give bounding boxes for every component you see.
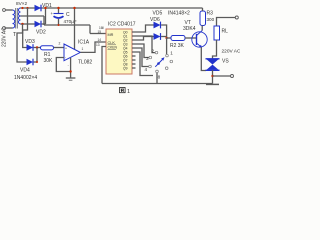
capacitor C stub bottom <box>58 19 60 25</box>
wire: emitter down to triac gate <box>201 47 206 70</box>
op-amp IC1A triangle <box>64 44 80 61</box>
transformer T secondary winding <box>19 8 21 24</box>
wire: ground rail to IC2 MR <box>44 24 90 26</box>
ground bus bottom <box>102 83 213 85</box>
svg-text:CKEN: CKEN <box>108 46 118 50</box>
ground bar under triac <box>206 83 219 85</box>
wire: op-amp output to CLK <box>80 42 106 52</box>
svg-text:4: 4 <box>145 67 148 72</box>
svg-text:VD3: VD3 <box>25 39 35 45</box>
svg-text:1N4002×4: 1N4002×4 <box>14 75 37 81</box>
wire: triac MT1 down <box>212 70 214 83</box>
svg-text:300: 300 <box>207 17 215 22</box>
diode VD3 <box>27 44 34 51</box>
wire: junction down to VD4 cathode <box>36 48 38 63</box>
transformer T core <box>15 8 17 29</box>
svg-text:1: 1 <box>170 50 173 55</box>
svg-text:15: 15 <box>98 30 102 34</box>
resistor R3 <box>200 11 206 26</box>
svg-text:220V AC: 220V AC <box>222 49 241 55</box>
svg-text:MR: MR <box>108 33 114 37</box>
svg-text:VD2: VD2 <box>36 30 46 36</box>
transistor collector <box>197 31 203 36</box>
wire: VD5 cathode to node <box>161 25 167 38</box>
wire: VD2 cathode up to rail <box>42 23 46 25</box>
svg-text:IC1A: IC1A <box>78 40 90 46</box>
resistor R1 <box>41 46 54 50</box>
terminal: primary top <box>3 9 6 12</box>
wire: RL top to terminal <box>217 18 236 27</box>
svg-text:IC2 CD4017: IC2 CD4017 <box>108 22 136 28</box>
wire: Q pin y36 to contact 2 <box>132 36 155 53</box>
wire: Q pin y32 to VD5 anode <box>132 25 154 32</box>
ground symbol <box>66 77 76 79</box>
IC2 output pin labels Q <box>123 31 128 71</box>
capacitor C plates <box>54 13 64 15</box>
wire: VD3 cathode to R1 <box>34 47 41 49</box>
svg-text:2: 2 <box>59 42 61 46</box>
relay RL body <box>214 26 220 40</box>
junction: VD2 cathode at rail <box>44 7 46 9</box>
svg-text:30K: 30K <box>44 58 54 64</box>
svg-text:VD1: VD1 <box>42 3 52 9</box>
junction: V- and input ground <box>69 70 71 72</box>
svg-text:3: 3 <box>146 56 149 61</box>
wire: op-amp V- down <box>70 58 72 78</box>
capacitor C stub top <box>58 8 60 13</box>
svg-text:14: 14 <box>98 38 102 42</box>
svg-text:R3: R3 <box>207 11 214 17</box>
wire: contact 1 to R2 node <box>166 38 168 54</box>
wire: Q pin y48 to contact 4 <box>132 48 148 67</box>
caption figure 1 <box>120 88 126 93</box>
triac VS <box>206 58 220 60</box>
svg-text:2: 2 <box>152 49 155 54</box>
diode VD1 <box>35 5 42 12</box>
svg-text:VS: VS <box>222 59 229 65</box>
terminal: output top <box>235 16 238 19</box>
svg-text:VD5: VD5 <box>153 10 163 16</box>
svg-text:1: 1 <box>82 47 84 51</box>
wire: VD4 cathode <box>34 61 37 63</box>
junction: rail tap A <box>21 7 23 9</box>
wire: rail corner into R3 <box>202 8 204 11</box>
svg-text:+: + <box>51 11 54 16</box>
switch wiper arrow <box>157 62 160 65</box>
wire: secondary center tap <box>21 15 45 17</box>
wire: VD6 cathode <box>161 36 167 38</box>
junction: rail tap to VD3 <box>26 7 28 9</box>
wire: RL bottom to triac <box>213 40 217 60</box>
wire: primary top lead <box>6 9 13 11</box>
svg-text:Q9: Q9 <box>123 67 128 71</box>
wire: bottom end down to VD4 anode <box>17 24 27 62</box>
svg-text:C: C <box>66 12 70 18</box>
terminal: primary bottom <box>3 27 6 30</box>
svg-text:220V AC: 220V AC <box>2 27 8 47</box>
wire: Q pin y52 down <box>132 52 153 76</box>
svg-text:13: 13 <box>96 43 100 47</box>
transformer T primary winding <box>13 10 15 28</box>
svg-text:3DK4: 3DK4 <box>183 26 196 32</box>
svg-text:+: + <box>65 46 67 50</box>
diode VD4 <box>27 59 34 66</box>
wire: CKEN to ground bus <box>102 47 106 84</box>
wire: top end down to VD3 anode <box>23 8 28 48</box>
svg-text:TL082: TL082 <box>78 60 92 66</box>
wire: primary bottom lead <box>6 27 13 29</box>
diode VD6 <box>154 33 161 40</box>
wire: to bottom terminal <box>213 75 231 77</box>
junction: VD3/VD4 cathodes <box>36 46 38 48</box>
IC2 CD4017 body <box>106 29 132 74</box>
transistor emitter <box>197 43 202 47</box>
svg-text:CLK: CLK <box>108 41 116 45</box>
svg-text:8V×2: 8V×2 <box>16 1 27 6</box>
pin number 16 stub <box>102 27 104 30</box>
wire: secondary bottom to VD2 <box>21 23 36 25</box>
svg-text:IN4148×2: IN4148×2 <box>168 10 190 16</box>
svg-text:1: 1 <box>127 89 130 94</box>
wire: Q pin y44 to VD6 anode <box>132 44 149 58</box>
svg-text:VD6: VD6 <box>150 17 160 23</box>
svg-text:R2 3K: R2 3K <box>170 43 185 49</box>
diode VD2 <box>35 21 42 28</box>
rotary switch SA contacts <box>155 51 158 54</box>
svg-text:RL: RL <box>222 29 229 35</box>
wire: R3 to collector <box>201 26 203 31</box>
diode VD5 <box>154 22 161 29</box>
junction: triac terminal <box>211 75 213 77</box>
svg-text:-: - <box>68 63 69 67</box>
svg-text:VD4: VD4 <box>20 68 30 74</box>
wire: node to R2 <box>167 37 171 39</box>
junction: bottom end tap to VD4 <box>21 23 23 25</box>
junction: cap at rail <box>57 7 59 9</box>
junction: VD5/VD6/R2 <box>165 37 167 39</box>
wire: +V top rail <box>21 7 203 9</box>
transistor base bar <box>196 34 198 45</box>
wire: contact 8 to ground bus <box>156 73 158 84</box>
transistor VT circle <box>192 32 207 47</box>
wire: Q pin y40 to contact 3 <box>132 37 154 41</box>
terminal: output bottom <box>231 75 234 78</box>
wire: inverting input to ground <box>56 58 70 72</box>
svg-text:-: - <box>65 55 66 59</box>
resistor R2 <box>171 36 185 41</box>
op-amp IC1A V+ stub <box>74 8 76 50</box>
wire: R2 to base <box>185 37 197 39</box>
wire: Q pin stubs <box>132 55 136 57</box>
svg-text:8: 8 <box>158 74 161 79</box>
